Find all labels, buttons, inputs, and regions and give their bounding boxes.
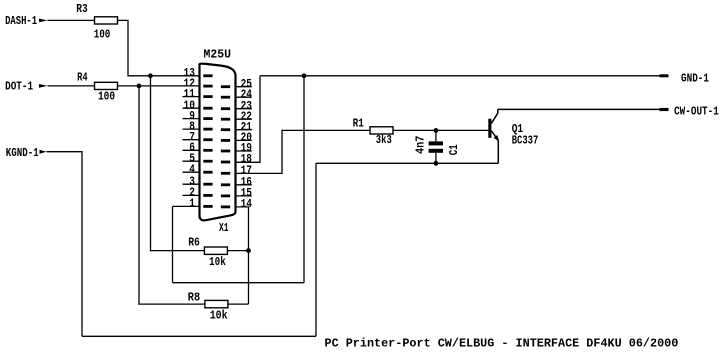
wire up to GND line xyxy=(303,76,305,283)
X1 pin 10 xyxy=(183,98,213,112)
resistor R8 xyxy=(188,291,228,323)
X1 pin 13 xyxy=(184,66,213,80)
svg-text:1: 1 xyxy=(189,197,195,211)
svg-text:R8: R8 xyxy=(188,291,200,305)
wire R4 to X1 pin 12 xyxy=(118,85,200,87)
svg-text:PC Printer-Port CW/ELBUG - INT: PC Printer-Port CW/ELBUG - INTERFACE DF4… xyxy=(325,336,679,350)
junction node DOT xyxy=(137,84,142,89)
X1 pin 12 xyxy=(184,76,213,90)
wire collector to CW-OUT xyxy=(498,108,660,110)
wire pin14 down to node xyxy=(236,207,249,304)
wire R8 right xyxy=(228,303,249,305)
svg-text:BC337: BC337 xyxy=(512,133,539,147)
X1 pin 6 xyxy=(183,141,213,155)
wire GND-1 line xyxy=(260,75,660,77)
wire KGND bottom rail xyxy=(82,335,316,337)
svg-text:10k: 10k xyxy=(210,309,228,323)
X1 pin 17 xyxy=(221,164,252,178)
X1 pin 3 xyxy=(183,174,213,188)
X1 pin 16 xyxy=(221,175,252,189)
X1 pin 20 xyxy=(221,131,252,145)
resistor R3 xyxy=(76,2,117,42)
terminal KGND-1 xyxy=(6,146,47,160)
capacitor C1 xyxy=(414,130,461,163)
wire pin18 to GND xyxy=(236,76,261,163)
X1 pin 8 xyxy=(183,119,213,133)
X1 pin 14 xyxy=(221,197,253,211)
X1 pin 24 xyxy=(221,87,253,101)
X1 pin 22 xyxy=(221,109,252,123)
X1 pin 18 xyxy=(221,152,252,166)
X1 pin 2 xyxy=(183,186,213,200)
X1 pin 21 xyxy=(221,120,252,134)
resistor R4 xyxy=(77,71,117,104)
X1 pin 9 xyxy=(183,109,213,123)
terminal DOT-1 xyxy=(5,80,47,94)
wire pin17 to R1 xyxy=(236,130,371,173)
X1 pin 4 xyxy=(183,162,213,176)
junction on GND line xyxy=(302,73,307,78)
svg-text:X1: X1 xyxy=(219,221,229,235)
X1 pin 1 xyxy=(189,197,212,211)
wire pin1 rail xyxy=(173,282,305,284)
svg-text:14: 14 xyxy=(241,197,253,211)
X1 pin 19 xyxy=(221,141,252,155)
junction base node xyxy=(434,128,439,133)
wire DOT node to R8 xyxy=(139,86,205,304)
wire bottom rail up to emitter rail xyxy=(315,163,317,336)
svg-text:M25U: M25U xyxy=(204,47,232,61)
svg-text:R3: R3 xyxy=(76,2,87,16)
svg-text:4n7: 4n7 xyxy=(414,136,428,154)
svg-text:10k: 10k xyxy=(209,255,226,269)
wire KGND-1 down xyxy=(47,152,83,337)
wire DASH node to R6 xyxy=(151,76,205,251)
wire DASH-1 to R3 xyxy=(48,19,95,21)
wire pin1 to left xyxy=(173,205,200,207)
svg-text:C1: C1 xyxy=(447,144,461,155)
terminal CW-OUT-1 xyxy=(660,104,719,118)
svg-text:GND-1: GND-1 xyxy=(681,72,709,86)
svg-text:DASH-1: DASH-1 xyxy=(5,14,37,28)
X1 pin 7 xyxy=(183,130,213,144)
svg-text:R1: R1 xyxy=(353,116,364,130)
svg-text:R4: R4 xyxy=(77,71,88,85)
X1 pin 23 xyxy=(221,99,252,113)
svg-text:DOT-1: DOT-1 xyxy=(5,80,33,94)
wire emitter rail xyxy=(316,162,498,164)
svg-text:CW-OUT-1: CW-OUT-1 xyxy=(674,104,719,118)
resistor R1 xyxy=(353,116,393,147)
X1 pin 5 xyxy=(183,151,213,165)
connector X1 DB25 body xyxy=(200,64,236,221)
terminal DASH-1 xyxy=(5,14,47,28)
svg-text:KGND-1: KGND-1 xyxy=(6,146,39,160)
svg-text:3k3: 3k3 xyxy=(376,133,392,147)
svg-text:100: 100 xyxy=(98,90,115,104)
svg-text:100: 100 xyxy=(94,27,111,41)
X1 pin 11 xyxy=(183,87,213,101)
wire R6 right xyxy=(227,250,248,252)
wire R3 to X1 pin 13 xyxy=(118,20,200,75)
terminal GND-1 xyxy=(660,72,710,86)
junction emitter rail xyxy=(434,161,439,166)
X1 pin 15 xyxy=(221,186,252,200)
junction R6/R8/pin14 node xyxy=(246,248,251,253)
svg-text:R6: R6 xyxy=(188,236,200,250)
resistor R6 xyxy=(188,236,227,270)
junction node DASH at pin13 wire xyxy=(148,73,153,78)
wire base of Q1 xyxy=(393,129,489,131)
wire DOT-1 to R4 xyxy=(48,85,95,87)
X1 pin 25 xyxy=(221,77,252,91)
wire pin1 down xyxy=(172,206,174,282)
transistor Q1 xyxy=(488,109,538,163)
